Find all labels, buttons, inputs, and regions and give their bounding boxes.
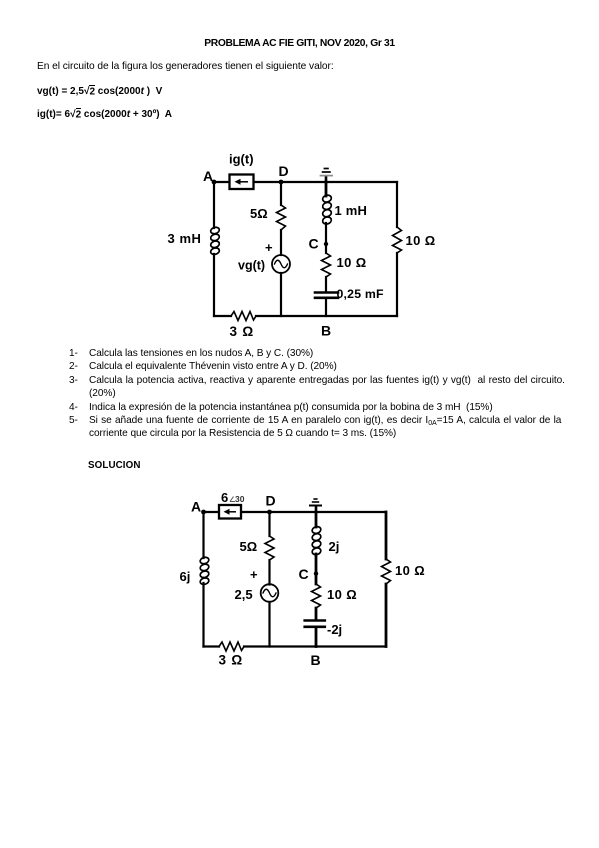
svg-text:30: 30 [235, 494, 245, 504]
resistor 10 Ohm mid s2 [312, 584, 321, 608]
wire inductor to resistor s2 [315, 554, 318, 584]
resistor 5 Ohm s2 [265, 536, 274, 560]
svg-text:1 mH: 1 mH [335, 203, 368, 218]
svg-text:5Ω: 5Ω [240, 539, 258, 554]
wire left branch upper s2 [202, 512, 204, 558]
wire right branch upper [396, 182, 398, 227]
current source 6ang30 box [219, 505, 241, 519]
svg-text:-2j: -2j [327, 622, 342, 637]
wire top A to D to right corner [214, 181, 397, 183]
resistor 10 Ohm right s2 [382, 559, 391, 584]
svg-text:C: C [309, 236, 319, 252]
svg-text:0,25 mF: 0,25 mF [337, 287, 384, 301]
svg-text:6j: 6j [180, 569, 191, 584]
wire inductor to resistor mid [325, 223, 327, 253]
wire resistor to capacitor s2 [315, 608, 318, 619]
wire bottom right segment s2 [244, 645, 386, 647]
svg-text:vg(t): vg(t) [238, 259, 265, 273]
wire bottom right segment [256, 315, 397, 317]
source vg sine [275, 260, 288, 268]
node C [324, 242, 328, 246]
wire 5ohm branch upper s2 [268, 512, 270, 536]
resistor 3 Ohm s2 [219, 642, 244, 651]
ground symbol s2 [309, 499, 322, 506]
svg-text:A: A [203, 168, 213, 184]
svg-text:3 Ω: 3 Ω [230, 324, 254, 339]
wire top A to D to right corner s2 [204, 511, 387, 513]
svg-text:+: + [265, 240, 273, 255]
resistor 10 Ohm right [393, 227, 402, 253]
ground symbol c1 [320, 169, 333, 176]
ground stub s2 [315, 506, 318, 512]
node C s2 [314, 571, 318, 575]
svg-text:5Ω: 5Ω [250, 206, 268, 221]
svg-text:+: + [250, 567, 258, 582]
wire capacitor to bottom s2 [315, 628, 318, 647]
resistor 5 Ohm [277, 205, 286, 230]
svg-text:10 Ω: 10 Ω [327, 587, 357, 602]
svg-text:3 mH: 3 mH [168, 231, 202, 246]
inductor 1 mH [322, 194, 332, 225]
svg-text:B: B [311, 652, 321, 668]
capacitor -2j [305, 621, 325, 627]
wire source to bottom [280, 273, 282, 316]
capacitor 0,25 mF [315, 293, 338, 298]
wire 5ohm branch upper [280, 182, 282, 205]
svg-text:A: A [191, 499, 201, 515]
inductor 6j [199, 556, 209, 585]
node A [212, 180, 217, 185]
inductor L 3 mH [210, 226, 220, 255]
wire right branch lower s2 [385, 584, 388, 647]
wire source to bottom s2 [268, 602, 270, 647]
node D [279, 180, 284, 185]
wire left branch lower [213, 254, 215, 316]
inductor 2j [311, 526, 321, 556]
wire resistor to source s2 [268, 560, 270, 585]
wire mid branch upper [325, 182, 328, 196]
source 2,5 circle [261, 584, 279, 602]
ground stub c1 [325, 176, 328, 182]
wire resistor to capacitor [325, 277, 327, 291]
label 6 ang 30 [221, 490, 245, 505]
wire mid branch upper s2 [315, 512, 318, 527]
resistor 10 Ohm mid [322, 253, 331, 277]
svg-text:3 Ω: 3 Ω [219, 653, 243, 668]
wire right branch upper s2 [385, 512, 388, 559]
wire left branch lower s2 [202, 583, 204, 647]
current source ig box [230, 175, 254, 190]
wire capacitor to bottom [325, 299, 327, 316]
svg-text:10 Ω: 10 Ω [406, 233, 436, 248]
svg-text:ig(t): ig(t) [229, 152, 254, 167]
wire bottom left segment [214, 315, 231, 317]
wire right branch lower [396, 253, 398, 316]
wire resistor to source [280, 230, 282, 255]
svg-text:2j: 2j [329, 539, 340, 554]
wire left branch upper [213, 182, 215, 228]
wire bottom left segment s2 [204, 645, 220, 647]
source vg circle [272, 255, 290, 273]
svg-text:10 Ω: 10 Ω [395, 563, 425, 578]
svg-text:C: C [299, 566, 309, 582]
svg-text:6: 6 [221, 490, 228, 505]
svg-text:10 Ω: 10 Ω [337, 255, 367, 270]
svg-text:B: B [321, 323, 331, 339]
node A s2 [201, 510, 206, 515]
resistor 3 Ohm [231, 312, 256, 321]
svg-text:2,5: 2,5 [235, 587, 253, 602]
svg-text:D: D [266, 493, 276, 509]
source 2,5 sine [263, 589, 276, 597]
node D s2 [267, 510, 272, 515]
svg-text:D: D [279, 163, 289, 179]
